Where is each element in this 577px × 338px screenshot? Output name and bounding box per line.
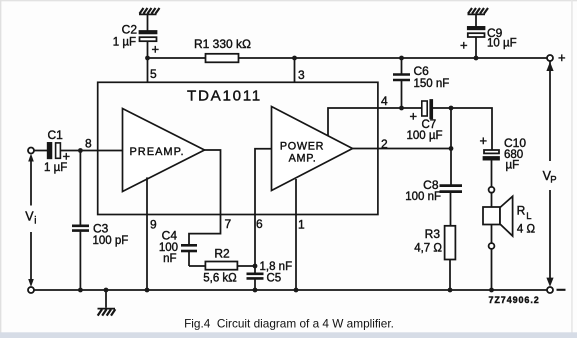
- svg-text:10 µF: 10 µF: [487, 38, 517, 50]
- wire pin 2 output: [353, 108, 452, 149]
- capacitor C5 1,8 nF: [247, 266, 264, 290]
- capacitor C4 100 nF: [181, 245, 197, 266]
- wire C2 to node: [147, 41, 149, 58]
- wire input to C1: [34, 150, 48, 152]
- svg-text:9: 9: [150, 218, 157, 232]
- svg-text:C6: C6: [414, 64, 430, 78]
- junction speaker on ground rail: [489, 288, 494, 293]
- capacitor C2 (1 uF, polarized): [140, 31, 157, 41]
- svg-text:100 pF: 100 pF: [93, 235, 129, 247]
- Vp arrow line: [549, 61, 551, 161]
- svg-text:C4: C4: [162, 229, 178, 243]
- junction pin3 on supply rail: [292, 56, 297, 61]
- svg-text:+: +: [63, 149, 71, 164]
- svg-text:5: 5: [150, 67, 157, 81]
- ground (top right, above C9): [468, 8, 489, 14]
- svg-text:R3: R3: [425, 227, 441, 241]
- junction C4/R2/C5 node: [253, 264, 258, 269]
- pin 5 wire: [147, 58, 149, 82]
- svg-text:7: 7: [225, 217, 232, 231]
- junction C5 on ground rail: [253, 288, 258, 293]
- resistor R2 5,6 k: [205, 262, 237, 270]
- svg-text:i: i: [34, 216, 36, 227]
- svg-text:+: +: [152, 42, 160, 57]
- Vp arrowhead down: [546, 278, 553, 287]
- svg-text:1: 1: [298, 218, 305, 232]
- svg-text:C10: C10: [504, 136, 526, 150]
- text labels: [113, 23, 566, 105]
- svg-text:4,7 Ω: 4,7 Ω: [414, 243, 442, 255]
- Vp arrowhead up: [546, 62, 553, 71]
- capacitor C7 100 uF (polarized): [402, 100, 452, 118]
- junction pin1 on ground rail: [294, 288, 299, 293]
- svg-text:+: +: [558, 50, 566, 65]
- op-amp U1b POWER AMP triangle: [272, 107, 353, 191]
- input ground terminal: [28, 287, 34, 293]
- top supply rail wire: [148, 57, 206, 59]
- svg-text:R2: R2: [214, 247, 230, 261]
- svg-text:7Z74906.2: 7Z74906.2: [489, 295, 540, 305]
- junction pin9 on ground rail: [145, 288, 150, 293]
- svg-text:R: R: [517, 203, 526, 217]
- terminal - (bottom right): [547, 287, 553, 293]
- svg-text:100 nF: 100 nF: [405, 191, 441, 203]
- wire C1 to pin 8: [60, 150, 122, 152]
- wire R2 to node: [237, 265, 255, 267]
- svg-text:8: 8: [85, 137, 92, 151]
- svg-text:C2: C2: [122, 23, 138, 37]
- junction C2/pin5 on supply rail: [145, 56, 150, 61]
- svg-text:C8: C8: [423, 178, 439, 192]
- junction C6/pin4 wire: [399, 106, 404, 111]
- svg-text:C1: C1: [48, 128, 64, 142]
- svg-text:4 Ω: 4 Ω: [517, 223, 536, 235]
- junction C9 on supply rail: [474, 56, 479, 61]
- svg-text:nF: nF: [163, 253, 176, 265]
- svg-text:100 µF: 100 µF: [407, 130, 443, 142]
- svg-text:R1 330 kΩ: R1 330 kΩ: [194, 37, 251, 51]
- svg-text:2: 2: [381, 137, 388, 151]
- capacitor C8 100 nF: [440, 149, 463, 226]
- svg-text:1,8 nF: 1,8 nF: [260, 261, 293, 273]
- Vi arrowhead up: [28, 154, 34, 162]
- pin 4 bootstrap wire: [328, 108, 402, 136]
- svg-text:6: 6: [256, 217, 263, 231]
- svg-text:C3: C3: [93, 222, 109, 236]
- junction ground stub on rail: [104, 288, 109, 293]
- junction R3 on ground rail: [448, 288, 453, 293]
- svg-text:+: +: [480, 133, 488, 148]
- terminal + (top right): [547, 55, 553, 61]
- junction pin2/C8 node: [449, 146, 454, 151]
- wire C4 to R2: [189, 265, 205, 267]
- svg-text:AMP.: AMP.: [289, 152, 317, 164]
- wire ground to C2: [147, 15, 149, 31]
- junction C7 output node: [449, 106, 454, 111]
- pin 3 wire: [294, 58, 296, 82]
- svg-text:150 nF: 150 nF: [414, 78, 450, 90]
- junction C3 on ground rail: [78, 288, 83, 293]
- wire R3 to rail: [449, 260, 451, 291]
- capacitor C1 1 uF (polarized): [48, 143, 61, 158]
- resistor R1 330 k: [206, 54, 239, 63]
- svg-text:1 µF: 1 µF: [113, 37, 136, 49]
- resistor R3 4,7 ohm: [445, 226, 456, 260]
- svg-text:1 µF: 1 µF: [44, 162, 67, 174]
- capacitor C6 150 nF: [393, 58, 410, 108]
- svg-text:4: 4: [381, 94, 388, 108]
- svg-text:TDA1011: TDA1011: [187, 87, 262, 104]
- svg-text:L: L: [526, 211, 531, 222]
- svg-text:+: +: [410, 109, 418, 124]
- ground (top left, above C2): [139, 8, 160, 14]
- pin 1 wire: [295, 179, 297, 290]
- svg-text:POWER: POWER: [280, 141, 324, 153]
- svg-text:PREAMP.: PREAMP.: [129, 146, 184, 158]
- bottom ground rail: [34, 289, 546, 291]
- capacitor C10 680 uF (polarized): [484, 150, 500, 187]
- svg-text:P: P: [550, 174, 556, 185]
- op-amp block TDA1011 box: [98, 82, 378, 214]
- pin 6 wire: [255, 149, 272, 266]
- svg-text:3: 3: [298, 68, 305, 82]
- wire R1 to + terminal: [239, 57, 547, 59]
- svg-text:V: V: [25, 209, 34, 223]
- svg-text:Fig.4 Circuit diagram of a 4: Fig.4 Circuit diagram of a 4 W amplifier…: [184, 317, 394, 331]
- svg-text:+: +: [460, 38, 468, 53]
- loudspeaker RL 4 ohm: [483, 187, 513, 290]
- capacitor C9 10 uF (polarized): [468, 15, 485, 58]
- svg-text:µF: µF: [506, 160, 520, 172]
- pin 9 wire: [146, 177, 148, 290]
- minus sign at terminal: [557, 289, 566, 291]
- svg-text:5,6 kΩ: 5,6 kΩ: [203, 272, 237, 284]
- junction C3 on input wire: [78, 148, 83, 153]
- capacitor C3 100 pF: [72, 151, 89, 291]
- ground stub on bottom rail: [98, 290, 116, 316]
- input terminal circle: [28, 148, 34, 154]
- wire preamp output to pin 7: [189, 150, 221, 245]
- op-amp U1a PREAMP triangle: [123, 109, 205, 192]
- Vi measure arrow: [30, 158, 32, 206]
- Vi arrowhead down: [28, 279, 34, 287]
- junction C6 on supply rail: [399, 56, 404, 61]
- wire output node to C10 branch: [451, 108, 492, 150]
- svg-text:C5: C5: [267, 273, 282, 285]
